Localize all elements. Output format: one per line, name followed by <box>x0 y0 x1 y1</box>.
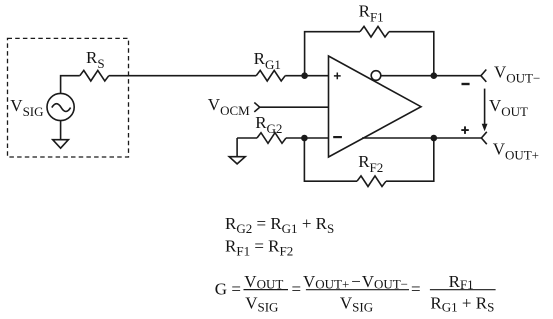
wire RG2 to op-amp - input <box>286 137 329 139</box>
svg-text:VSIG: VSIG <box>245 294 278 315</box>
resistor RG1 <box>256 70 285 81</box>
fraction bar 3 <box>430 289 496 291</box>
svg-text:VOUT: VOUT <box>244 272 283 292</box>
junction dot output bottom <box>431 135 438 142</box>
wire RF1 to output node <box>389 32 434 76</box>
fraction bar 2 <box>306 289 409 291</box>
svg-text:RG1: RG1 <box>254 49 281 72</box>
wire feedback left vertical <box>305 32 360 76</box>
svg-text:RF1: RF1 <box>359 1 384 24</box>
wire RS to RG1 <box>109 75 256 77</box>
minus sign - input <box>333 136 342 138</box>
svg-text:RG1 + RS: RG1 + RS <box>430 293 494 314</box>
svg-text:G =: G = <box>215 279 241 298</box>
svg-text:RF2: RF2 <box>358 152 383 175</box>
wire bottom feedback left vertical <box>304 138 357 181</box>
svg-text:VSIG: VSIG <box>10 96 43 119</box>
svg-text:RF1 = RF2: RF1 = RF2 <box>225 237 293 259</box>
svg-text:=: = <box>411 279 421 298</box>
svg-text:RG2 = RG1 + RS: RG2 = RG1 + RS <box>225 214 334 236</box>
wire VSIG up to RS <box>61 76 80 94</box>
terminal VOCM <box>254 103 259 112</box>
voltage source VSIG <box>47 93 74 120</box>
wire top output <box>381 75 481 77</box>
wire RF2 to output node <box>386 138 434 181</box>
ground (source) <box>53 140 69 149</box>
plus sign + input <box>334 73 341 80</box>
wire ground to RG2 <box>237 137 257 139</box>
junction dot + input node <box>301 72 308 79</box>
svg-text:=: = <box>292 279 302 298</box>
wire VSIG down to ground <box>60 121 62 140</box>
junction dot - input node <box>301 135 308 142</box>
terminal VOUT- <box>481 70 486 82</box>
resistor RF1 <box>360 26 389 37</box>
op-amp U1 <box>329 56 422 157</box>
ground (RG2) <box>236 138 238 157</box>
minus sign near VOUT- <box>462 83 470 85</box>
svg-text:VOUT+: VOUT+ <box>493 140 539 163</box>
svg-text:RG2: RG2 <box>255 113 282 136</box>
svg-text:VOUT+ −VOUT−: VOUT+ −VOUT− <box>303 272 408 292</box>
svg-text:VSIG: VSIG <box>340 294 373 315</box>
svg-text:VOUT−: VOUT− <box>494 63 540 86</box>
terminal VOUT+ <box>481 132 486 144</box>
resistor RG2 <box>257 133 286 144</box>
svg-text:RS: RS <box>86 48 105 71</box>
dashed source box <box>8 38 129 157</box>
wire VOCM to op-amp <box>260 106 329 108</box>
VOUT arrow <box>484 89 486 126</box>
svg-text:RF1: RF1 <box>449 272 474 292</box>
plus sign near VOUT+ <box>461 126 469 133</box>
resistor RF2 <box>357 176 386 187</box>
wire RG1 to op-amp + input <box>285 75 328 77</box>
wire bottom output <box>362 137 481 139</box>
svg-text:VOUT: VOUT <box>489 96 528 119</box>
resistor RS <box>80 70 109 81</box>
junction dot output top <box>431 72 438 79</box>
fraction bar 1 <box>244 289 289 291</box>
output inversion bubble <box>371 71 381 81</box>
equation G = VOUT/VSIG = ... <box>215 272 496 315</box>
svg-text:VOCM: VOCM <box>208 95 250 118</box>
